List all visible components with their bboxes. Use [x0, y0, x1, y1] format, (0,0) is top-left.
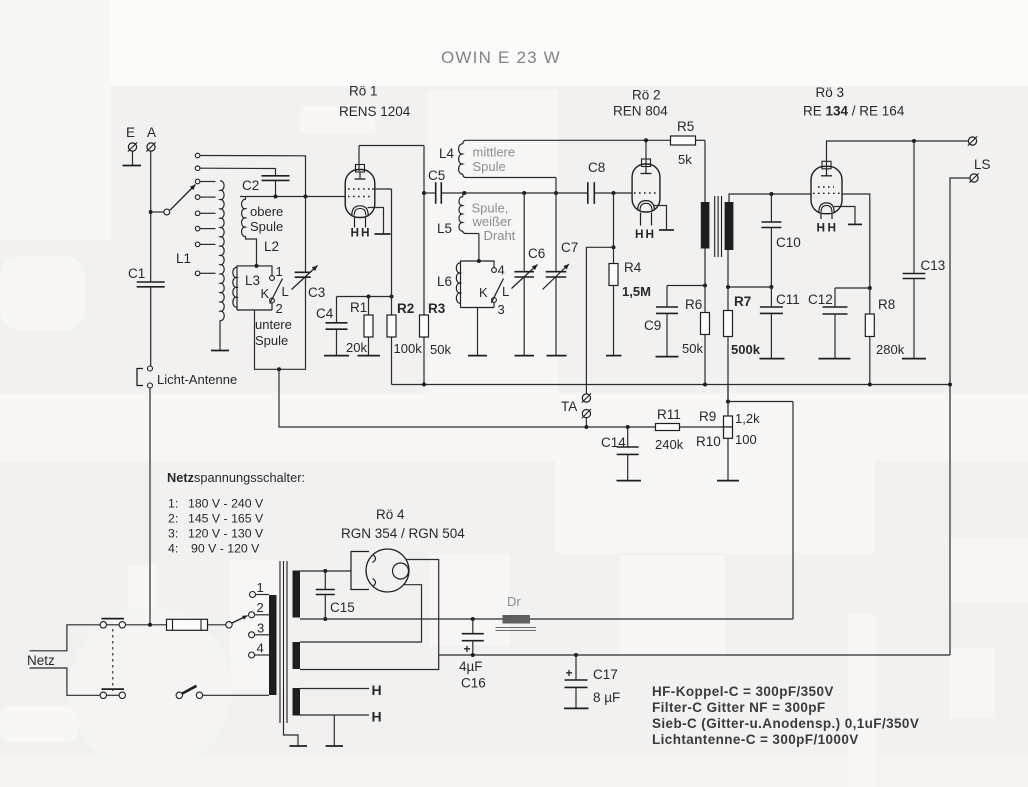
- svg-text:C12: C12: [808, 292, 833, 307]
- wire L3 bottom: [255, 277, 306, 369]
- label untere Spule: [255, 317, 292, 348]
- ground transformer core: [284, 723, 308, 746]
- svg-text:280k: 280k: [876, 342, 905, 357]
- svg-text:L: L: [282, 284, 289, 299]
- wire primary bottom: [704, 249, 706, 286]
- plug top: [100, 619, 125, 628]
- svg-text:A: A: [147, 125, 156, 140]
- capacitor C2: [242, 176, 290, 197]
- svg-text:Rö 1: Rö 1: [349, 84, 378, 99]
- capacitor C1: [128, 266, 165, 366]
- resistor R2: [387, 197, 422, 385]
- svg-text:1,2k: 1,2k: [735, 411, 760, 426]
- wire grid down: [613, 193, 615, 247]
- wire main bus: [392, 384, 951, 386]
- wire R7 C10 link: [728, 286, 771, 288]
- wire R5 to transformer: [704, 140, 706, 202]
- svg-text:2:: 2:: [168, 512, 178, 526]
- node R1 top: [367, 295, 371, 299]
- label Spule weisser Draht: [472, 201, 516, 244]
- svg-text:K: K: [261, 286, 270, 301]
- tube Roe2 REN804: [632, 159, 674, 241]
- svg-text:H: H: [646, 227, 655, 241]
- svg-text:Spule: Spule: [255, 333, 288, 348]
- svg-text:4:: 4:: [168, 542, 178, 556]
- capacitor C12: [808, 288, 870, 359]
- svg-text:Lichtantenne-C = 300pF/1000V: Lichtantenne-C = 300pF/1000V: [652, 732, 859, 747]
- svg-text:3: 3: [498, 302, 505, 317]
- node C17 top: [574, 653, 578, 657]
- svg-text:120 V - 130 V: 120 V - 130 V: [188, 527, 264, 541]
- svg-text:R6: R6: [685, 297, 702, 312]
- svg-text:C7: C7: [561, 240, 578, 255]
- svg-text:90 V - 120 V: 90 V - 120 V: [191, 542, 260, 556]
- svg-text:C3: C3: [308, 285, 325, 300]
- svg-text:E: E: [126, 125, 135, 140]
- plug dashed divider: [112, 629, 114, 691]
- node bus LS: [948, 383, 952, 387]
- wire TA stub: [585, 418, 587, 427]
- node L3 top: [255, 264, 259, 268]
- svg-text:C6: C6: [528, 246, 545, 261]
- svg-text:H: H: [828, 221, 837, 235]
- svg-text:C5: C5: [428, 168, 445, 183]
- resistor R3: [420, 146, 452, 385]
- svg-text:R1: R1: [350, 300, 367, 315]
- wire Roe4 filament loop: [300, 585, 422, 642]
- tube Roe1 RENS1204: [345, 165, 390, 240]
- title OWIN E 23 W: [441, 48, 561, 67]
- svg-text:240k: 240k: [655, 437, 684, 452]
- contact tap1: [250, 580, 264, 598]
- node box junction: [304, 195, 308, 199]
- svg-text:3:: 3:: [168, 527, 178, 541]
- svg-text:1: 1: [276, 264, 283, 279]
- svg-text:Sieb-C (Gitter-u.Anodensp.) 0,: Sieb-C (Gitter-u.Anodensp.) 0,1uF/350V: [652, 716, 919, 731]
- svg-text:C2: C2: [242, 178, 259, 193]
- wire plug to fuse: [126, 624, 167, 626]
- node C10 top: [769, 192, 773, 196]
- contact 2 K: [270, 298, 283, 316]
- capacitor C7 variable: [543, 240, 579, 356]
- fuse: [167, 619, 208, 630]
- resistor R9: [699, 409, 760, 427]
- svg-text:1,5M: 1,5M: [622, 284, 651, 299]
- svg-text:HF-Koppel-C = 300pF/350V: HF-Koppel-C = 300pF/350V: [652, 684, 834, 699]
- svg-text:Dr: Dr: [507, 594, 521, 609]
- svg-text:untere: untere: [255, 317, 292, 332]
- node R9 top: [726, 400, 730, 404]
- svg-text:1:: 1:: [168, 497, 178, 511]
- wire Roe3 anode: [827, 141, 969, 169]
- capacitor C17: [564, 655, 620, 708]
- node bus R8: [868, 383, 872, 387]
- label Netz: [27, 653, 55, 668]
- switch arm K L 2: [479, 279, 509, 303]
- capacitor C6 variable: [512, 193, 546, 356]
- svg-text:2: 2: [257, 600, 264, 615]
- svg-text:50k: 50k: [682, 341, 703, 356]
- svg-text:Spule: Spule: [250, 219, 283, 234]
- label Roe2: [613, 88, 668, 119]
- terminal Licht-Antenne: [137, 366, 237, 388]
- svg-text:H: H: [817, 221, 826, 235]
- svg-text:100k: 100k: [394, 341, 423, 356]
- wire Roe1 anode: [359, 146, 424, 172]
- node TA line: [584, 425, 588, 429]
- tube Roe4 RGN354: [351, 549, 409, 592]
- transformer interstage: [701, 196, 734, 257]
- node TA drop: [277, 367, 281, 371]
- svg-text:RGN 354 / RGN 504: RGN 354 / RGN 504: [341, 526, 465, 541]
- wire HV top: [300, 570, 351, 572]
- svg-text:H: H: [372, 709, 382, 725]
- resistor R5: [671, 119, 706, 167]
- wires taps: [255, 595, 269, 656]
- node C14 top: [626, 425, 630, 429]
- svg-text:RENS 1204: RENS 1204: [339, 104, 411, 119]
- svg-text:C16: C16: [461, 676, 486, 691]
- terminal E: [123, 125, 142, 166]
- svg-text:4: 4: [498, 263, 505, 278]
- svg-text:+: +: [566, 666, 573, 680]
- svg-text:C9: C9: [644, 318, 661, 333]
- svg-text:4: 4: [257, 641, 264, 656]
- svg-text:100: 100: [735, 432, 757, 447]
- node C2 junction: [274, 195, 278, 199]
- svg-text:L: L: [502, 284, 509, 299]
- node C6 top: [522, 191, 526, 195]
- node C10 bottom: [769, 285, 773, 289]
- resistor R8: [865, 288, 904, 385]
- wire Roe2 anode: [645, 140, 647, 166]
- svg-text:C11: C11: [776, 292, 800, 307]
- svg-text:OWIN E 23 W: OWIN E 23 W: [441, 48, 561, 67]
- svg-text:Filter-C Gitter NF = 300pF: Filter-C Gitter NF = 300pF: [652, 700, 826, 715]
- svg-text:5k: 5k: [678, 152, 692, 167]
- node bus R6: [703, 383, 707, 387]
- inductor L1: [176, 181, 229, 351]
- svg-text:Licht-Antenne: Licht-Antenne: [157, 372, 237, 387]
- label voltages: [168, 497, 264, 556]
- inductor L4: [439, 140, 556, 271]
- capacitor C11: [760, 287, 800, 359]
- node Lichtantenne Netz: [148, 623, 152, 627]
- node C15 top: [323, 569, 327, 573]
- svg-text:R4: R4: [624, 260, 642, 275]
- svg-text:R2: R2: [397, 301, 414, 316]
- svg-text:weißer: weißer: [472, 214, 513, 229]
- label Netzspannungsschalter: [167, 470, 305, 485]
- contacts L1 taps: [195, 153, 200, 275]
- plug bottom: [100, 689, 125, 698]
- contact tap4: [249, 641, 264, 659]
- wire Netz bottom: [30, 668, 101, 695]
- wire fuse to switch: [208, 624, 226, 626]
- wire Roe4 anode loop: [300, 560, 439, 670]
- inductor L3 box: [233, 266, 272, 310]
- svg-text:TA: TA: [561, 399, 577, 414]
- svg-text:H: H: [372, 682, 382, 698]
- rail anode top: [466, 139, 671, 141]
- svg-text:LS: LS: [974, 157, 991, 172]
- wire Roe1 grid out: [372, 189, 392, 197]
- terminal TA upper: [582, 393, 591, 402]
- wire LS down: [950, 178, 970, 655]
- terminal output top: [968, 136, 977, 145]
- svg-text:RE 134 / RE 164: RE 134 / RE 164: [803, 104, 905, 119]
- node Roe2 grid: [612, 191, 616, 195]
- svg-text:L6: L6: [437, 274, 452, 289]
- notes capacitors: [652, 684, 919, 747]
- svg-text:C8: C8: [588, 160, 605, 175]
- resistor R1: [346, 297, 380, 356]
- capacitor C10: [761, 194, 800, 287]
- wire tap2 to C2: [200, 168, 276, 175]
- resistor R11: [655, 407, 684, 452]
- svg-text:Rö 4: Rö 4: [376, 507, 405, 522]
- resistor R7: [724, 250, 761, 402]
- node R8 top: [868, 286, 872, 290]
- label LS: [974, 157, 991, 172]
- svg-text:50k: 50k: [430, 342, 451, 357]
- contact 3: [492, 298, 505, 317]
- wire tap line: [279, 369, 724, 427]
- svg-text:180 V - 240 V: 180 V - 240 V: [188, 497, 264, 511]
- node C15 bottom: [323, 617, 327, 621]
- svg-text:L3: L3: [245, 273, 260, 288]
- antenna selector arm: [153, 185, 196, 215]
- capacitor C8: [588, 160, 632, 204]
- wire R7 to R9: [727, 385, 729, 417]
- svg-text:R5: R5: [677, 119, 694, 134]
- wire L6 ground: [468, 308, 487, 356]
- wire secondary top: [729, 194, 811, 202]
- svg-text:L4: L4: [439, 146, 455, 161]
- node C16 bottom: [471, 653, 475, 657]
- wire grid Roe2 left: [460, 192, 588, 194]
- svg-text:20k: 20k: [346, 340, 367, 355]
- contact 4: [492, 263, 505, 278]
- label mittlere Spule: [473, 145, 516, 175]
- svg-text:L2: L2: [264, 239, 279, 254]
- node C7 L4: [554, 191, 558, 195]
- svg-text:R9: R9: [699, 409, 716, 424]
- svg-text:Netzspannungsschalter:: Netzspannungsschalter:: [167, 470, 305, 485]
- node C13 top: [912, 139, 916, 143]
- capacitor C15: [316, 571, 355, 619]
- capacitor C16: [459, 619, 486, 691]
- resistor R10: [696, 427, 757, 449]
- wire tap1 to box: [200, 156, 306, 197]
- switch arm K L: [261, 279, 289, 304]
- svg-text:8 µF: 8 µF: [593, 690, 620, 705]
- wire Netz top: [30, 625, 101, 651]
- svg-text:L1: L1: [176, 251, 191, 266]
- node R2 tap: [390, 295, 394, 299]
- terminal A: [146, 125, 156, 152]
- node bus R3: [422, 383, 426, 387]
- resistor R4: [606, 247, 651, 355]
- svg-text:Draht: Draht: [484, 228, 516, 243]
- node Roe2 anode rail: [644, 138, 648, 142]
- tube Roe3 RE134: [811, 161, 862, 234]
- node L6 top: [477, 259, 481, 263]
- svg-text:R11: R11: [657, 407, 681, 422]
- contact tap3: [249, 621, 265, 638]
- svg-text:R7: R7: [734, 294, 751, 309]
- svg-text:H: H: [635, 227, 644, 241]
- label Roe1: [339, 84, 411, 120]
- inductor L2 obere Spule: [242, 197, 284, 266]
- voltage selector arm: [226, 616, 248, 629]
- svg-text:C15: C15: [330, 600, 355, 615]
- svg-text:REN 804: REN 804: [613, 104, 668, 119]
- capacitor C13: [902, 141, 945, 359]
- wire Licht-Antenne down: [149, 388, 151, 625]
- contact 1: [270, 264, 283, 280]
- svg-text:1: 1: [257, 580, 264, 595]
- svg-text:H: H: [351, 226, 360, 240]
- svg-text:4µF: 4µF: [459, 659, 483, 674]
- ground heater: [326, 715, 344, 746]
- resistor R6: [682, 286, 710, 385]
- svg-text:H: H: [361, 226, 370, 240]
- terminal LS: [969, 173, 978, 182]
- wire R10 ground: [717, 438, 739, 480]
- node C16 top: [471, 617, 475, 621]
- svg-text:C1: C1: [128, 266, 145, 281]
- capacitor C3 variable: [292, 197, 326, 301]
- node R4 top: [612, 245, 616, 249]
- node R7 link: [726, 285, 730, 289]
- svg-text:R10: R10: [696, 434, 721, 449]
- transformer mains: [269, 561, 300, 723]
- wire heater H1: [300, 682, 382, 698]
- wires taps to L1: [200, 182, 216, 274]
- wire grid Roe1: [240, 196, 345, 198]
- wire Roe3 grid out: [842, 194, 870, 288]
- wire Bplus loop: [792, 402, 794, 620]
- svg-text:L5: L5: [437, 221, 452, 236]
- wire ground return: [439, 654, 950, 656]
- svg-text:C10: C10: [776, 235, 801, 250]
- wire HV bottom: [300, 618, 793, 620]
- svg-text:145 V - 165 V: 145 V - 165 V: [188, 512, 264, 526]
- choke Dr: [496, 594, 537, 631]
- node C9 R6: [703, 284, 707, 288]
- label Roe3: [803, 85, 905, 119]
- wire to TA: [586, 247, 613, 394]
- capacitor C5: [424, 168, 460, 204]
- svg-text:obere: obere: [250, 204, 283, 219]
- svg-text:K: K: [479, 285, 488, 300]
- node A junction: [149, 210, 153, 214]
- svg-text:mittlere: mittlere: [473, 145, 516, 160]
- svg-text:500k: 500k: [731, 342, 761, 357]
- svg-text:3: 3: [257, 621, 264, 636]
- svg-text:Spule: Spule: [473, 159, 506, 174]
- svg-text:+: +: [464, 642, 471, 656]
- wire A down to C1: [150, 151, 152, 281]
- switch mains: [176, 686, 269, 699]
- svg-text:2: 2: [276, 301, 283, 316]
- wire heater H2: [300, 709, 382, 725]
- svg-text:R8: R8: [878, 297, 895, 312]
- svg-text:C17: C17: [593, 667, 618, 682]
- svg-text:Rö 2: Rö 2: [632, 88, 661, 103]
- svg-text:Netz: Netz: [27, 653, 55, 668]
- svg-text:R3: R3: [428, 301, 446, 316]
- node R3 C5 tap: [422, 191, 426, 195]
- wire R9 to loop: [728, 401, 793, 403]
- node L5 top: [462, 191, 466, 195]
- inductor L6 box: [437, 261, 494, 308]
- capacitor C14: [601, 427, 641, 481]
- inductor L5: [437, 193, 479, 261]
- svg-text:C13: C13: [921, 258, 946, 273]
- wire C4-R1-R2: [337, 296, 392, 298]
- capacitor C9: [644, 286, 705, 357]
- svg-text:C4: C4: [316, 306, 334, 321]
- capacitor C4: [316, 297, 349, 356]
- label Roe4: [341, 507, 465, 541]
- svg-text:Rö 3: Rö 3: [816, 85, 845, 100]
- label TA: [561, 399, 577, 414]
- terminal TA lower: [582, 409, 591, 418]
- contact tap2: [249, 600, 264, 618]
